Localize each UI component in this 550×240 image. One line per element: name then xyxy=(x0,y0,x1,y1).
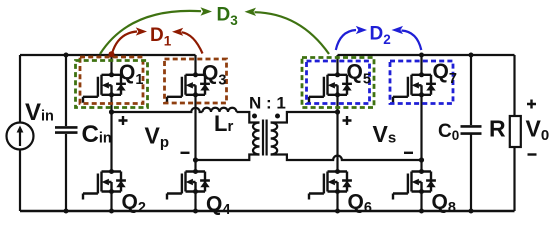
capacitor C0 top lead xyxy=(470,55,472,125)
wire leg Q1-Q2 drain xyxy=(110,55,112,75)
junction C0 top xyxy=(469,53,474,58)
capacitor Cin plates xyxy=(55,127,78,132)
wire transformer primary bottom to Vp- node xyxy=(196,155,260,161)
source Vin arrowhead xyxy=(17,126,24,133)
source Vin circle xyxy=(7,123,34,150)
wire leg Q7-Q8 drain xyxy=(420,55,422,75)
dashed box D1 around Q3 xyxy=(165,59,227,103)
wire leg Q7-Q8 source xyxy=(420,192,422,212)
wire leg Q5-Q6 middle xyxy=(336,95,338,172)
label Vp plus sign xyxy=(119,116,128,125)
transistor Q4 xyxy=(167,169,210,200)
wire leg Q5-Q6 source xyxy=(336,192,338,212)
node D1 anchor red dot xyxy=(109,51,115,57)
label Vp minus sign xyxy=(181,152,190,154)
junction Q2 source on rail xyxy=(109,209,114,214)
arrowhead D2 right xyxy=(392,26,404,34)
label Vs plus sign xyxy=(343,116,352,125)
arrowhead D2 left xyxy=(356,26,367,34)
wire leg Q3-Q4 middle xyxy=(194,95,196,172)
transistor Q6 xyxy=(309,169,352,200)
junction node Vs+ xyxy=(335,109,340,114)
wire bottom rail xyxy=(20,210,515,213)
wire leg Q7-Q8 middle xyxy=(420,95,422,172)
junction Cin top xyxy=(64,53,69,58)
transformer secondary polarity dot xyxy=(275,114,280,119)
dashed box D2 around Q5 xyxy=(307,61,370,104)
wire right rail above R xyxy=(513,55,515,116)
junction node Vp+ xyxy=(109,109,114,114)
wire leg Q3-Q4 drain xyxy=(194,55,196,75)
dashed box D2 around Q7 xyxy=(390,61,453,104)
wire leg Q1-Q2 source xyxy=(110,192,112,212)
transistor Q8 xyxy=(393,169,436,200)
transistor Q7 xyxy=(393,72,436,103)
junction node Vs- xyxy=(419,157,424,162)
capacitor C0 bottom lead xyxy=(470,134,472,211)
junction Q8 source on rail xyxy=(419,209,424,214)
transistor Q1 xyxy=(83,72,126,103)
arrow D3 right arc xyxy=(255,12,330,54)
wire Lr to transformer primary top xyxy=(237,112,260,123)
wire leg Q3-Q4 source xyxy=(194,192,196,212)
wire left rail below Vin xyxy=(19,150,21,212)
junction Q7 drain on rail xyxy=(419,53,424,58)
transistor Q3 xyxy=(167,72,210,103)
arrow D1 right arc xyxy=(182,32,203,53)
svg-text:N : 1: N : 1 xyxy=(249,94,286,113)
arrow D2 right arc xyxy=(402,31,422,51)
transistor Q2 xyxy=(83,169,126,200)
junction C0 bottom xyxy=(469,209,474,214)
wire leg Q5-Q6 drain xyxy=(336,55,338,75)
label V0 plus sign xyxy=(527,100,536,109)
transformer primary polarity dot xyxy=(252,114,257,119)
capacitor C0 plates xyxy=(461,126,482,133)
wire leg Q1-Q2 middle xyxy=(110,95,112,172)
transistor Q5 xyxy=(309,72,352,103)
dashed box D1 around Q1 xyxy=(80,57,143,104)
arrowhead D1 left xyxy=(136,27,147,35)
arrowhead D3 left xyxy=(201,7,213,15)
arrow D3 left arc xyxy=(100,11,201,54)
arrowhead D1 right xyxy=(172,28,183,36)
wire right rail below R xyxy=(513,147,515,211)
resistor R box xyxy=(510,116,521,147)
label V0 minus sign xyxy=(528,153,537,155)
junction Cin bottom xyxy=(64,209,69,214)
label Vs minus sign xyxy=(404,152,413,154)
junction Q4 source on rail xyxy=(193,209,198,214)
transformer core xyxy=(263,120,267,156)
junction Q6 source on rail xyxy=(335,209,340,214)
wire Vp+ node with hop over Q3 leg xyxy=(112,108,203,112)
wire transformer secondary top to Vs+ node xyxy=(271,112,338,123)
capacitor Cin bottom lead xyxy=(65,134,67,211)
inductor Lr coil xyxy=(203,108,237,112)
arrow D1 left arc xyxy=(112,32,137,54)
dashed box D3 around Q5 xyxy=(302,58,374,108)
source Vin arrow xyxy=(19,131,21,146)
junction node Vp- xyxy=(193,157,198,162)
dashed box D3 around Q1 xyxy=(76,61,148,108)
arrowhead D3 right xyxy=(245,8,257,16)
svg-text:R: R xyxy=(489,116,506,142)
junction Q1 drain on rail xyxy=(109,53,114,58)
transformer primary winding xyxy=(253,123,260,155)
wire top rail primary bridge xyxy=(20,54,196,56)
wire transformer secondary bottom with hop over Q5 leg to Vs- node xyxy=(271,155,422,161)
wire left rail above Vin xyxy=(19,55,21,123)
transformer secondary winding xyxy=(271,123,278,155)
wire top rail secondary bridge xyxy=(338,54,515,56)
capacitor Cin top lead xyxy=(65,55,67,126)
arrow D2 left arc xyxy=(336,30,356,50)
